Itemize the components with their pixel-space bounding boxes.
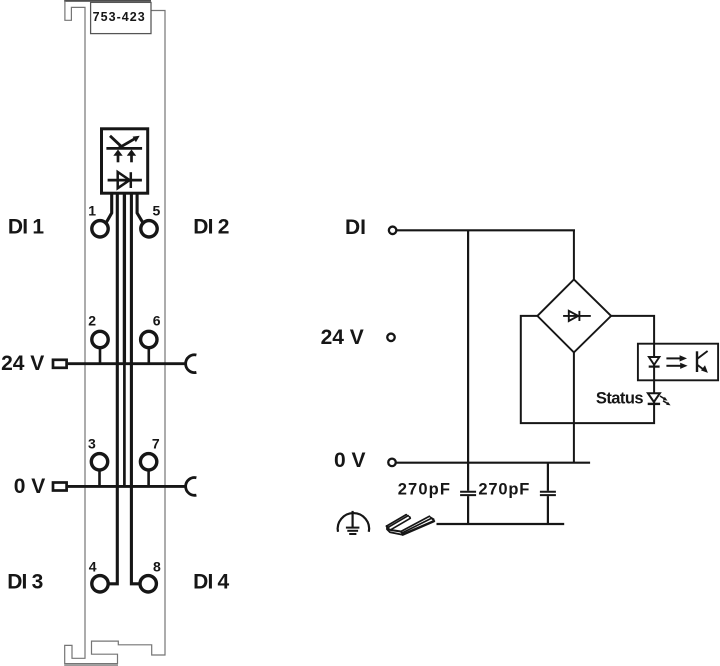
capacitor C2 270pF: [540, 463, 556, 524]
ground symbol: [338, 511, 369, 534]
0V rail connector rect: [53, 483, 67, 491]
svg-text:0 V: 0 V: [334, 449, 366, 472]
svg-text:3: 3: [88, 436, 96, 452]
module top edge bar: [64, 0, 151, 2]
module body outline: [65, 1, 165, 664]
24V rail in module: [68, 362, 186, 365]
wire DI branch down to C1: [467, 230, 469, 491]
svg-text:DI 2: DI 2: [193, 216, 228, 239]
node 24V terminal circle: [387, 334, 395, 342]
svg-text:1: 1: [88, 202, 96, 218]
pin wire to 24V rail: [123, 195, 126, 364]
opto input symbol: diagonal line: [110, 136, 123, 148]
terminal 7: [140, 454, 156, 470]
wire bridge right corner to opto box: [611, 316, 654, 344]
node 0V terminal circle: [388, 459, 396, 467]
bridge diode symbol: [563, 311, 591, 321]
pin wire to terminal 8: [131, 195, 138, 584]
bridge rectifier diamond: [537, 279, 611, 352]
24V rail connector rect: [53, 360, 67, 368]
svg-text:0 V: 0 V: [14, 475, 46, 498]
wire FE rail: [437, 523, 565, 525]
svg-text:DI: DI: [345, 216, 366, 239]
opto diode symbol D1: [108, 172, 142, 188]
stem terminal 7: [147, 471, 150, 487]
svg-text:753-423: 753-423: [93, 10, 146, 24]
svg-text:DI 1: DI 1: [8, 216, 44, 239]
U2 wire through LED: [653, 344, 655, 381]
status LED light arrow 1: [660, 396, 668, 401]
svg-text:8: 8: [153, 558, 161, 574]
svg-text:7: 7: [152, 436, 160, 452]
pin wire 6 to terminal 5: [137, 195, 143, 223]
stem terminal 3: [98, 471, 101, 487]
wire bridge left corner loop: [521, 316, 654, 423]
optocoupler box U1: [102, 129, 148, 193]
wire 0V horizontal: [396, 462, 590, 464]
U2 phototransistor: [697, 351, 708, 373]
svg-text:24 V: 24 V: [321, 326, 364, 349]
svg-text:5: 5: [153, 202, 161, 218]
U2 light arrow lower: [666, 363, 687, 369]
opto input symbol: horizontal bar: [106, 147, 142, 150]
pin wire to terminal 4: [109, 195, 117, 584]
svg-text:24 V: 24 V: [1, 352, 44, 375]
terminal 8: [140, 576, 156, 592]
0V rail jumper arc: [186, 477, 197, 495]
0V rail in module: [68, 485, 186, 488]
svg-text:Status: Status: [596, 389, 644, 407]
stem terminal 6: [148, 348, 151, 364]
terminal 1: [92, 221, 108, 237]
svg-text:DI 4: DI 4: [193, 571, 229, 594]
svg-text:DI 3: DI 3: [7, 571, 42, 594]
module bottom gray bar: [64, 664, 118, 666]
pin wire to 0V rail: [123, 364, 126, 487]
terminal 2: [92, 331, 108, 347]
wire bridge bottom to 0V: [573, 352, 575, 462]
svg-text:270pF: 270pF: [398, 481, 451, 499]
opto input symbol: up arrow right: [127, 150, 136, 163]
optocoupler box U2: [638, 344, 718, 381]
24V rail jumper arc: [186, 355, 197, 373]
svg-text:2: 2: [88, 313, 96, 329]
svg-text:6: 6: [153, 313, 161, 329]
svg-text:4: 4: [89, 558, 97, 574]
status LED light arrow 2: [663, 401, 671, 406]
node DI terminal circle: [389, 227, 397, 235]
wire DI down to bridge top: [573, 230, 575, 280]
terminal 3: [91, 454, 107, 470]
U2 LED symbol: [649, 357, 660, 367]
wire DI horizontal: [397, 229, 575, 231]
svg-text:270pF: 270pF: [478, 481, 530, 499]
opto input symbol: up arrow left: [113, 150, 122, 163]
DIN rail icon: [387, 515, 435, 535]
terminal 4: [92, 576, 108, 592]
stem terminal 2: [99, 348, 102, 364]
capacitor C1 270pF: [460, 492, 476, 524]
label box 753-423: [91, 2, 151, 33]
pin wire 1 to terminal 1: [106, 195, 112, 223]
U2 light arrow upper: [666, 355, 687, 361]
terminal 6: [141, 331, 157, 347]
terminal 5: [141, 221, 157, 237]
status LED symbol: [648, 393, 660, 404]
opto input symbol: arrow diagonal: [118, 136, 139, 149]
